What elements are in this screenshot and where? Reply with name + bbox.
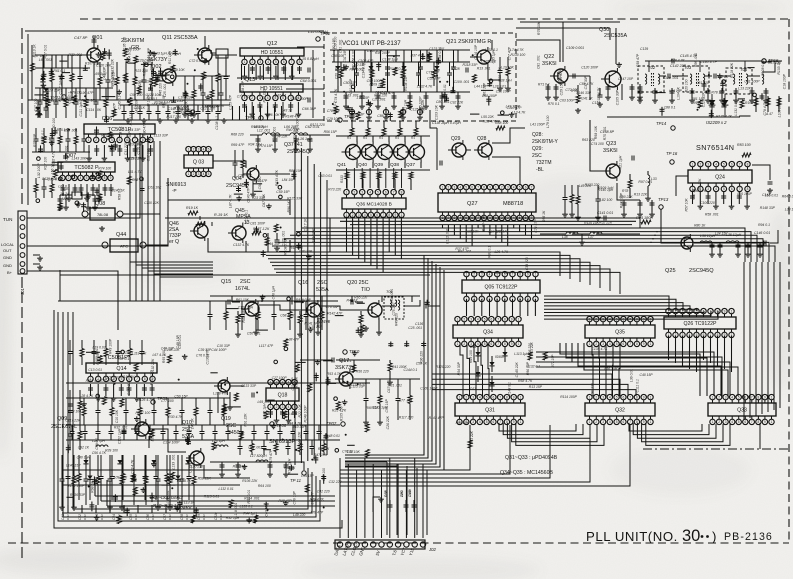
svg-text:R58 0.1: R58 0.1 — [118, 188, 122, 200]
svg-text:C72 0.01: C72 0.01 — [189, 59, 203, 63]
svg-text:3: 3 — [472, 420, 474, 424]
svg-text:2SC945Q: 2SC945Q — [287, 149, 310, 155]
svg-text:PLL UNIT(NO.: PLL UNIT(NO. — [586, 529, 678, 544]
svg-text:8: 8 — [504, 342, 506, 346]
svg-text:0.01: 0.01 — [168, 514, 172, 520]
svg-text:732TM: 732TM — [536, 160, 552, 166]
svg-text:R88 100: R88 100 — [495, 121, 508, 125]
svg-text:R69 47P: R69 47P — [231, 143, 245, 147]
svg-text:TUN: TUN — [3, 217, 12, 222]
svg-text:C27 100P: C27 100P — [272, 376, 288, 380]
svg-text:R43 100P: R43 100P — [109, 338, 113, 354]
svg-text:R19 1K: R19 1K — [186, 206, 199, 210]
svg-text:Q18: Q18 — [278, 393, 288, 399]
svg-text:R54 33P: R54 33P — [457, 361, 461, 375]
svg-text:R136 0.1: R136 0.1 — [244, 210, 248, 224]
svg-text:Q31: Q31 — [485, 408, 495, 414]
svg-text:5: 5 — [275, 60, 277, 64]
svg-text:Q19: Q19 — [221, 416, 231, 422]
svg-text:C59 15P: C59 15P — [276, 190, 290, 194]
svg-text:L63 0.1: L63 0.1 — [58, 185, 69, 189]
svg-text:8: 8 — [747, 162, 749, 166]
svg-text:C102 1μH: C102 1μH — [118, 428, 122, 444]
svg-text:D15: D15 — [470, 345, 476, 349]
svg-text:R13 22K: R13 22K — [634, 193, 648, 197]
svg-text:R30 4.7K: R30 4.7K — [168, 415, 183, 419]
svg-text:L90 47P: L90 47P — [81, 91, 94, 95]
svg-text:C78 4.7K: C78 4.7K — [763, 101, 767, 116]
svg-text:R56 15P: R56 15P — [324, 130, 338, 134]
svg-text:C50 .001: C50 .001 — [247, 331, 261, 335]
svg-text:L133 .001: L133 .001 — [172, 454, 176, 469]
svg-text:R58 22K: R58 22K — [198, 477, 212, 481]
svg-text:Q28:: Q28: — [532, 132, 543, 138]
svg-text:R65 0.01: R65 0.01 — [247, 490, 251, 504]
svg-text:R70 .001: R70 .001 — [603, 126, 607, 140]
svg-text:1/8W: 1/8W — [408, 488, 412, 497]
svg-text:6: 6 — [491, 317, 493, 321]
svg-text:C46: C46 — [146, 514, 150, 520]
svg-text:C15 33P: C15 33P — [128, 156, 142, 160]
svg-text:L14 15P: L14 15P — [301, 474, 314, 478]
svg-text:C42 220: C42 220 — [317, 489, 330, 493]
svg-text:R94 1K: R94 1K — [294, 376, 298, 388]
svg-text:5: 5 — [484, 342, 486, 346]
svg-text:C81 100P: C81 100P — [250, 221, 266, 225]
svg-text:R22 220: R22 220 — [262, 90, 266, 103]
svg-text:Q35: Q35 — [615, 330, 625, 336]
svg-text:6: 6 — [623, 342, 625, 346]
svg-text:TP13: TP13 — [658, 197, 669, 202]
svg-text:2: 2 — [448, 185, 450, 189]
svg-text:L36 12μH: L36 12μH — [700, 234, 716, 238]
svg-text:C47: C47 — [163, 514, 167, 520]
svg-text:Q44: Q44 — [116, 232, 126, 238]
svg-text:3: 3 — [725, 395, 727, 399]
svg-text:C109 4.7K: C109 4.7K — [111, 475, 128, 479]
svg-text:C41: C41 — [61, 514, 65, 520]
svg-text:4: 4 — [203, 172, 205, 176]
svg-text:2: 2 — [193, 147, 195, 151]
svg-text:C117 1μH: C117 1μH — [58, 79, 62, 95]
svg-text:5: 5 — [616, 395, 618, 399]
svg-text:L28 4.7K: L28 4.7K — [80, 394, 94, 398]
svg-text:3: 3 — [259, 96, 261, 100]
svg-text:Q39: Q39 — [374, 162, 383, 168]
svg-text:C123 .001: C123 .001 — [429, 47, 445, 51]
svg-text:Q15: Q15 — [221, 279, 231, 285]
svg-text:1: 1 — [650, 395, 652, 399]
svg-text:3SK5I: 3SK5I — [542, 61, 557, 67]
svg-text:SN76514N: SN76514N — [696, 143, 734, 152]
svg-text:C111 1μH: C111 1μH — [79, 101, 83, 116]
svg-text:R132 22K: R132 22K — [151, 358, 155, 374]
svg-text:R109 47P: R109 47P — [559, 69, 563, 85]
svg-text:8: 8 — [144, 377, 146, 381]
svg-text:R58 10K: R58 10K — [594, 125, 598, 139]
svg-text:L132 0.01: L132 0.01 — [219, 487, 234, 491]
svg-text:C80 220: C80 220 — [139, 80, 152, 84]
svg-text:C146 0.01: C146 0.01 — [754, 231, 770, 235]
svg-text:C73 100: C73 100 — [68, 409, 81, 413]
svg-text:C51 10K: C51 10K — [347, 450, 361, 454]
svg-text:C128 22K: C128 22K — [702, 91, 706, 107]
svg-text:C147 15P: C147 15P — [618, 77, 634, 81]
svg-text:L15 0.82μH: L15 0.82μH — [300, 57, 319, 61]
svg-text:C67 100: C67 100 — [34, 99, 38, 112]
svg-text:C133 33P: C133 33P — [241, 384, 257, 388]
svg-text:R58 4.7K: R58 4.7K — [518, 379, 533, 383]
svg-text:2SC: 2SC — [532, 153, 542, 159]
svg-text:5: 5 — [465, 185, 467, 189]
svg-text:J01: J01 — [20, 287, 25, 295]
svg-text:R49 220: R49 220 — [394, 313, 398, 326]
svg-text:C120 .001: C120 .001 — [663, 76, 679, 80]
svg-text:R74 100: R74 100 — [98, 167, 111, 171]
svg-text:0.01: 0.01 — [151, 514, 155, 520]
svg-text:7: 7 — [751, 395, 753, 399]
svg-text:C39 .001: C39 .001 — [64, 129, 78, 133]
svg-text:4: 4 — [477, 342, 479, 346]
svg-text:4: 4 — [609, 420, 611, 424]
svg-text:1: 1 — [771, 420, 773, 424]
svg-text:L41 100P: L41 100P — [530, 123, 545, 127]
svg-text:R78 10K: R78 10K — [711, 90, 725, 94]
svg-text:R74 15P: R74 15P — [260, 144, 274, 148]
svg-text:R148 100P: R148 100P — [304, 405, 308, 423]
svg-text:3: 3 — [454, 185, 456, 189]
svg-text:6: 6 — [731, 162, 733, 166]
svg-text:C24 .001: C24 .001 — [248, 446, 262, 450]
svg-text:Q37: Q37 — [406, 162, 415, 168]
svg-text:Q36 MC14028 B: Q36 MC14028 B — [356, 202, 392, 208]
svg-text:Q20 25C: Q20 25C — [347, 280, 369, 286]
svg-text:C49: C49 — [197, 514, 201, 520]
svg-text:C-28: C-28 — [452, 67, 460, 71]
svg-text:7: 7 — [739, 162, 741, 166]
svg-text:1: 1 — [457, 342, 459, 346]
svg-text:B+: B+ — [7, 270, 13, 275]
svg-text:5: 5 — [484, 317, 486, 321]
svg-text:C117 22K: C117 22K — [65, 419, 81, 423]
svg-text:1: 1 — [589, 342, 591, 346]
svg-text:9: 9 — [511, 342, 513, 346]
svg-text:C68 4.7K: C68 4.7K — [280, 313, 295, 317]
svg-text:C39 33P: C39 33P — [198, 348, 212, 352]
svg-text:L56 0.01: L56 0.01 — [351, 50, 355, 63]
svg-text:Q29:: Q29: — [532, 146, 543, 152]
svg-text:7: 7 — [291, 60, 293, 64]
svg-text:C44 100P: C44 100P — [211, 348, 227, 352]
svg-text:C110 4.7K: C110 4.7K — [597, 87, 601, 104]
svg-text:C111 47P: C111 47P — [380, 91, 395, 95]
svg-text:C70 33P: C70 33P — [299, 249, 313, 253]
svg-text:R96 1K: R96 1K — [287, 200, 291, 212]
svg-text:4: 4 — [477, 317, 479, 321]
svg-text:L119 10K: L119 10K — [132, 352, 147, 356]
svg-text:5: 5 — [208, 172, 210, 176]
svg-text:C35 1μH: C35 1μH — [492, 49, 496, 63]
svg-text:L132 4.7K: L132 4.7K — [52, 150, 56, 166]
svg-text:R26 10K: R26 10K — [266, 113, 280, 117]
svg-text:L68 .001: L68 .001 — [39, 58, 52, 62]
svg-text:1: 1 — [650, 342, 652, 346]
svg-text:9: 9 — [513, 420, 515, 424]
svg-text:C105 33P: C105 33P — [616, 89, 620, 105]
svg-text:0.01: 0.01 — [83, 514, 87, 520]
svg-text:R87 100P: R87 100P — [350, 68, 366, 72]
svg-text:5: 5 — [616, 342, 618, 346]
svg-text:C22 10K: C22 10K — [465, 230, 479, 234]
svg-text:1: 1 — [270, 405, 272, 409]
svg-text:1: 1 — [535, 272, 537, 276]
svg-text:6: 6 — [493, 395, 495, 399]
svg-text:9: 9 — [643, 395, 645, 399]
svg-text:4: 4 — [267, 96, 269, 100]
svg-text:6: 6 — [471, 185, 473, 189]
svg-text:R87 4.7K: R87 4.7K — [177, 479, 192, 483]
svg-text:Q 03: Q 03 — [193, 160, 204, 166]
svg-text:er Q: er Q — [169, 239, 179, 245]
svg-text:C50 15P: C50 15P — [174, 395, 188, 399]
svg-text:L138 47P: L138 47P — [213, 392, 228, 396]
svg-text:Q21 2SKI9TMG R: Q21 2SKI9TMG R — [446, 39, 491, 45]
svg-text:C45: C45 — [129, 514, 133, 520]
svg-text:R20 100: R20 100 — [685, 79, 689, 92]
svg-text:L125 47P: L125 47P — [229, 94, 233, 109]
svg-text:L44 33P: L44 33P — [128, 128, 141, 132]
svg-text:7: 7 — [739, 187, 741, 191]
svg-text:7: 7 — [531, 185, 533, 189]
svg-text:R64 100: R64 100 — [258, 484, 271, 488]
svg-text:C47 8P: C47 8P — [74, 35, 88, 40]
svg-text:C74 10K: C74 10K — [179, 506, 193, 510]
svg-text:6: 6 — [491, 342, 493, 346]
svg-text:R140 1μH: R140 1μH — [598, 188, 614, 192]
svg-text:2SC: 2SC — [317, 280, 328, 286]
svg-text:C63 1K: C63 1K — [496, 230, 508, 234]
svg-text:4: 4 — [111, 138, 113, 142]
svg-text:4: 4 — [609, 342, 611, 346]
svg-text:3: 3 — [602, 420, 604, 424]
svg-text:7: 7 — [512, 272, 514, 276]
svg-text:2: 2 — [354, 190, 356, 194]
svg-text:Q11 2SC535A: Q11 2SC535A — [162, 35, 198, 41]
svg-text:3: 3 — [282, 405, 284, 409]
svg-text:7: 7 — [497, 317, 499, 321]
svg-text:R123 1K: R123 1K — [129, 111, 133, 125]
svg-text:HD 10551: HD 10551 — [261, 50, 284, 56]
svg-text:0.01: 0.01 — [202, 514, 206, 520]
svg-text:R79 47P: R79 47P — [269, 449, 273, 463]
svg-text:C86 1K: C86 1K — [377, 114, 389, 118]
svg-text:C110 22K: C110 22K — [144, 201, 160, 205]
svg-text:3: 3 — [198, 147, 200, 151]
svg-text:2: 2 — [463, 342, 465, 346]
svg-text:L36 0.01: L36 0.01 — [629, 369, 633, 382]
svg-text:8: 8 — [758, 395, 760, 399]
svg-text:R107 10K: R107 10K — [85, 62, 101, 66]
svg-text:TP 16: TP 16 — [666, 151, 678, 156]
svg-text:R123 100: R123 100 — [418, 61, 422, 76]
svg-text:R78: R78 — [622, 189, 628, 193]
svg-text:L56 100P: L56 100P — [737, 192, 752, 196]
svg-text:L13 22K: L13 22K — [738, 87, 751, 91]
svg-text:0.01: 0.01 — [66, 514, 70, 520]
svg-text:L13 1K: L13 1K — [184, 501, 195, 505]
svg-text:C144 0.1: C144 0.1 — [404, 368, 418, 372]
svg-text:Q34~Q35 : MC14560B: Q34~Q35 : MC14560B — [500, 470, 553, 476]
svg-text:4: 4 — [80, 176, 82, 180]
svg-text:6: 6 — [493, 420, 495, 424]
svg-text:C71 15P: C71 15P — [426, 70, 440, 74]
svg-text:R121 220: R121 220 — [310, 123, 325, 127]
svg-text:C115 22K: C115 22K — [120, 375, 136, 379]
svg-text:0.01: 0.01 — [134, 514, 138, 520]
svg-text:R80 47P: R80 47P — [143, 122, 147, 136]
svg-text:L109 0.01: L109 0.01 — [105, 375, 120, 379]
svg-text:C64 0.001: C64 0.001 — [300, 79, 317, 83]
svg-text:C10 33P: C10 33P — [217, 344, 231, 348]
svg-text:4: 4 — [369, 190, 371, 194]
svg-text:R56 220: R56 220 — [356, 369, 369, 373]
svg-text:L79 100: L79 100 — [546, 115, 550, 127]
svg-text:Q41: Q41 — [337, 162, 346, 168]
svg-text:1: 1 — [692, 162, 694, 166]
svg-text:C74 4.7K: C74 4.7K — [334, 88, 338, 103]
svg-text:7: 7 — [499, 420, 501, 424]
svg-text:C132 4.7K: C132 4.7K — [233, 243, 250, 247]
svg-text:C138 J8μH 0.47μH: C138 J8μH 0.47μH — [432, 121, 461, 125]
svg-text:4: 4 — [489, 272, 491, 276]
svg-text:C103 10K: C103 10K — [434, 104, 438, 120]
svg-text:C117 1K: C117 1K — [304, 218, 308, 232]
svg-text:L70 15P: L70 15P — [357, 96, 370, 100]
svg-text:3: 3 — [472, 395, 474, 399]
svg-text:L69 22K: L69 22K — [297, 431, 301, 444]
svg-text:3: 3 — [470, 317, 472, 321]
svg-text:3: 3 — [103, 138, 105, 142]
svg-text:C79 4.7K: C79 4.7K — [130, 459, 134, 474]
svg-text:R46 1μH: R46 1μH — [242, 309, 246, 323]
svg-text:R125 4.7K: R125 4.7K — [716, 114, 733, 118]
svg-text:C63 100P: C63 100P — [560, 99, 576, 103]
svg-text:L78 47P: L78 47P — [311, 510, 324, 514]
svg-text:C63 0.01: C63 0.01 — [318, 174, 332, 178]
svg-text:C138 1μH: C138 1μH — [382, 58, 398, 62]
svg-text:C81 .001: C81 .001 — [537, 55, 541, 69]
svg-text:Q25: Q25 — [665, 268, 676, 274]
svg-text:Q27: Q27 — [467, 201, 478, 207]
svg-text:R130 100: R130 100 — [511, 53, 526, 57]
svg-text:1: 1 — [346, 190, 348, 194]
svg-text:2SKI9TM-Y: 2SKI9TM-Y — [532, 139, 559, 145]
svg-text:3: 3 — [602, 395, 604, 399]
svg-text:2: 2 — [68, 176, 70, 180]
svg-text:7: 7 — [393, 190, 395, 194]
svg-text:GND: GND — [3, 255, 12, 260]
svg-text:R108 0.01: R108 0.01 — [283, 239, 287, 255]
svg-text:3SK5I: 3SK5I — [603, 148, 618, 154]
svg-text:R104 15P: R104 15P — [404, 75, 408, 91]
svg-text:2: 2 — [252, 60, 254, 64]
svg-text:C124 100P: C124 100P — [146, 94, 150, 112]
svg-text:IS953: IS953 — [495, 355, 504, 359]
svg-text:3: 3 — [725, 420, 727, 424]
svg-text:L28 0.01: L28 0.01 — [493, 84, 506, 88]
svg-text:Q08: Q08 — [95, 201, 105, 207]
svg-text:R94 0.1: R94 0.1 — [758, 223, 770, 227]
svg-text:R68 220: R68 220 — [231, 132, 244, 136]
svg-text:8: 8 — [401, 190, 403, 194]
svg-text:2: 2 — [595, 342, 597, 346]
svg-text:L82 100: L82 100 — [600, 198, 612, 202]
svg-text:3: 3 — [507, 185, 509, 189]
svg-text:R126 4.7K: R126 4.7K — [137, 398, 154, 402]
svg-text:R132 22K: R132 22K — [110, 58, 114, 74]
svg-text:C11 47P: C11 47P — [291, 377, 295, 391]
svg-text:6: 6 — [525, 185, 527, 189]
svg-text:Q05 TC9122P: Q05 TC9122P — [484, 285, 518, 291]
svg-text:L55 0.01: L55 0.01 — [765, 194, 778, 198]
svg-text:9: 9 — [643, 342, 645, 346]
svg-text:9: 9 — [724, 309, 726, 313]
svg-text:R22 10K: R22 10K — [298, 404, 302, 418]
svg-text:Q29: Q29 — [451, 136, 461, 142]
svg-text:9: 9 — [511, 317, 513, 321]
svg-text:R113 0.01: R113 0.01 — [204, 494, 220, 498]
svg-text:8: 8 — [747, 187, 749, 191]
svg-text:R86 22K: R86 22K — [177, 108, 191, 112]
svg-text:IS2209 x 2: IS2209 x 2 — [706, 120, 727, 125]
svg-text:L105 100P: L105 100P — [778, 100, 782, 117]
svg-text:1: 1 — [88, 138, 90, 142]
svg-text:C56 100P: C56 100P — [496, 89, 512, 93]
svg-text:C48 0.1: C48 0.1 — [95, 438, 99, 450]
svg-text:R81 10K: R81 10K — [289, 169, 303, 173]
svg-text:C62 10K: C62 10K — [148, 185, 162, 189]
svg-text:L38 1K: L38 1K — [785, 208, 793, 212]
svg-text:R10 33P: R10 33P — [292, 425, 306, 429]
svg-text:1: 1 — [457, 317, 459, 321]
svg-text:L133 0.1: L133 0.1 — [240, 505, 253, 509]
svg-text:3: 3 — [361, 190, 363, 194]
svg-text:R98 22K: R98 22K — [421, 99, 425, 113]
svg-text:Q23: Q23 — [606, 141, 616, 147]
svg-text:C52 33P: C52 33P — [427, 77, 441, 81]
svg-text:C140 4.7K: C140 4.7K — [367, 49, 384, 53]
svg-text:8: 8 — [104, 176, 106, 180]
svg-text:2: 2 — [718, 395, 720, 399]
svg-text:R138 4.7K: R138 4.7K — [481, 215, 485, 232]
svg-text:R133: R133 — [340, 175, 344, 183]
svg-text:3: 3 — [198, 172, 200, 176]
svg-text:L143 10K: L143 10K — [72, 156, 87, 160]
svg-text:R99 .001: R99 .001 — [694, 53, 698, 67]
svg-text:4: 4 — [203, 147, 205, 151]
svg-text:R87 0.1: R87 0.1 — [487, 246, 491, 258]
svg-text:L12 .001: L12 .001 — [257, 128, 270, 132]
svg-text:R118 33P: R118 33P — [463, 63, 479, 67]
svg-text:C49 15P: C49 15P — [176, 335, 180, 349]
svg-text:7: 7 — [136, 377, 138, 381]
svg-text:R70 15P: R70 15P — [33, 133, 37, 147]
svg-text:C120 220: C120 220 — [188, 464, 203, 468]
svg-text:C58 0.1: C58 0.1 — [118, 126, 122, 138]
svg-text:C70 33P: C70 33P — [326, 305, 340, 309]
svg-text:R130 10K: R130 10K — [128, 143, 144, 147]
svg-text:C32 220: C32 220 — [329, 480, 342, 484]
